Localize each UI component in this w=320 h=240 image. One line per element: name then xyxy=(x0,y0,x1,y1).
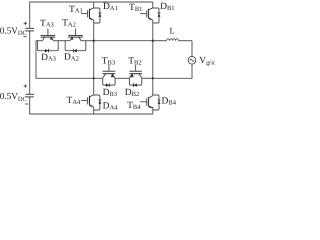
label TA4 xyxy=(67,96,82,106)
label TA3 xyxy=(40,19,54,29)
wire inductor to corner xyxy=(179,41,193,57)
svg-text:DA2: DA2 xyxy=(64,53,79,63)
svg-text:DB1: DB1 xyxy=(160,2,174,12)
ac source Vgrid circle xyxy=(188,57,196,65)
wire row1 between TA3 TA2 xyxy=(58,40,65,42)
label DB3 xyxy=(103,88,117,98)
node B-leg row1 junction xyxy=(152,40,154,42)
svg-text:TB3: TB3 xyxy=(102,56,115,66)
svg-text:TB1: TB1 xyxy=(129,3,142,13)
wire row2 between TB3 TB2 xyxy=(115,77,129,79)
wire top DC+ rail xyxy=(30,1,153,3)
wire left rail middle segment xyxy=(29,31,31,94)
wire Vgrid to row2 xyxy=(191,64,193,78)
label DA3 xyxy=(41,53,56,63)
label TB3 xyxy=(102,56,115,66)
label DB2 xyxy=(125,88,139,98)
svg-text:L: L xyxy=(170,26,175,36)
label DA2 xyxy=(64,53,79,63)
wire row2 TB2 to B-leg xyxy=(142,77,153,79)
svg-text:0.5VDC: 0.5VDC xyxy=(0,26,27,38)
svg-text:TA4: TA4 xyxy=(67,96,82,106)
wire left rail lower segment xyxy=(29,97,31,115)
svg-text:DB2: DB2 xyxy=(125,88,139,98)
svg-text:DA1: DA1 xyxy=(103,2,118,12)
svg-text:Vgrid: Vgrid xyxy=(199,56,215,66)
label TA2 xyxy=(62,18,76,28)
label DA1 xyxy=(103,2,118,12)
transistor TB2 with diode DB2 xyxy=(129,65,142,87)
label 0.5VDC lower xyxy=(0,91,27,103)
label TA1 xyxy=(69,5,83,15)
wire B-leg emitter of TB4 xyxy=(152,107,154,114)
wire A-leg mid segment xyxy=(93,20,95,95)
svg-text:DA3: DA3 xyxy=(41,53,56,63)
node B-leg row2 junction xyxy=(152,77,154,79)
wire row1 A-leg to B-leg xyxy=(94,40,153,42)
label Vgrid xyxy=(199,56,217,66)
svg-text:DB4: DB4 xyxy=(162,97,177,107)
capacitor C1 minus sign xyxy=(24,36,27,38)
label TB1 xyxy=(129,3,142,13)
svg-text:TA2: TA2 xyxy=(62,18,76,28)
svg-text:TA3: TA3 xyxy=(40,19,54,29)
svg-text:TB4: TB4 xyxy=(127,101,141,111)
svg-text:TB2: TB2 xyxy=(128,56,141,66)
inductor L coil xyxy=(167,39,179,41)
wire left rail upper segment xyxy=(29,2,31,29)
wire A-leg collector of TA1 xyxy=(93,2,95,8)
wire B-leg mid segment xyxy=(152,20,154,95)
wire row2 B-leg to grid branch xyxy=(153,77,193,79)
node A-leg row1 junction xyxy=(93,40,95,42)
transistor TA1 with diode DA1 xyxy=(81,8,101,23)
capacitor C2 plates xyxy=(26,94,34,97)
transistor TB1 with diode DB1 xyxy=(140,8,160,23)
svg-text:TA1: TA1 xyxy=(69,5,83,15)
label TB4 xyxy=(127,101,141,111)
label DB4 xyxy=(162,97,177,107)
svg-text:DA4: DA4 xyxy=(103,102,119,112)
label DB1 xyxy=(160,2,174,12)
transistor TA2 with diode DA2 xyxy=(65,29,86,53)
capacitor C2 plus sign xyxy=(24,84,27,87)
wire B-leg collector of TB1 xyxy=(152,2,154,8)
label L xyxy=(170,26,175,36)
svg-text:DB3: DB3 xyxy=(103,88,117,98)
capacitor C1 plates xyxy=(26,28,34,31)
label TB2 xyxy=(128,56,141,66)
wire row2 left segment xyxy=(36,77,103,79)
transistor TA4 with diode DA4 xyxy=(81,95,101,110)
capacitor C1 plus sign xyxy=(24,22,27,25)
transistor TA3 with diode DA3 xyxy=(37,29,58,53)
svg-text:0.5VDC: 0.5VDC xyxy=(0,91,27,103)
wire bottom DC- rail xyxy=(30,113,153,115)
node A-leg row2 junction xyxy=(93,77,95,79)
transistor TB3 with diode DB3 xyxy=(103,65,116,87)
wire row1 TA2 to A-leg xyxy=(86,40,94,42)
wire row1 B-leg to inductor xyxy=(153,40,167,42)
wire drop left vertical xyxy=(35,41,37,79)
capacitor C2 minus sign xyxy=(25,103,28,105)
wire row1 left stub xyxy=(36,40,38,42)
wire A-leg emitter of TA4 xyxy=(93,107,95,114)
label 0.5VDC upper xyxy=(0,26,27,38)
transistor TB4 with diode DB4 xyxy=(140,95,160,110)
label DA4 xyxy=(103,102,119,112)
